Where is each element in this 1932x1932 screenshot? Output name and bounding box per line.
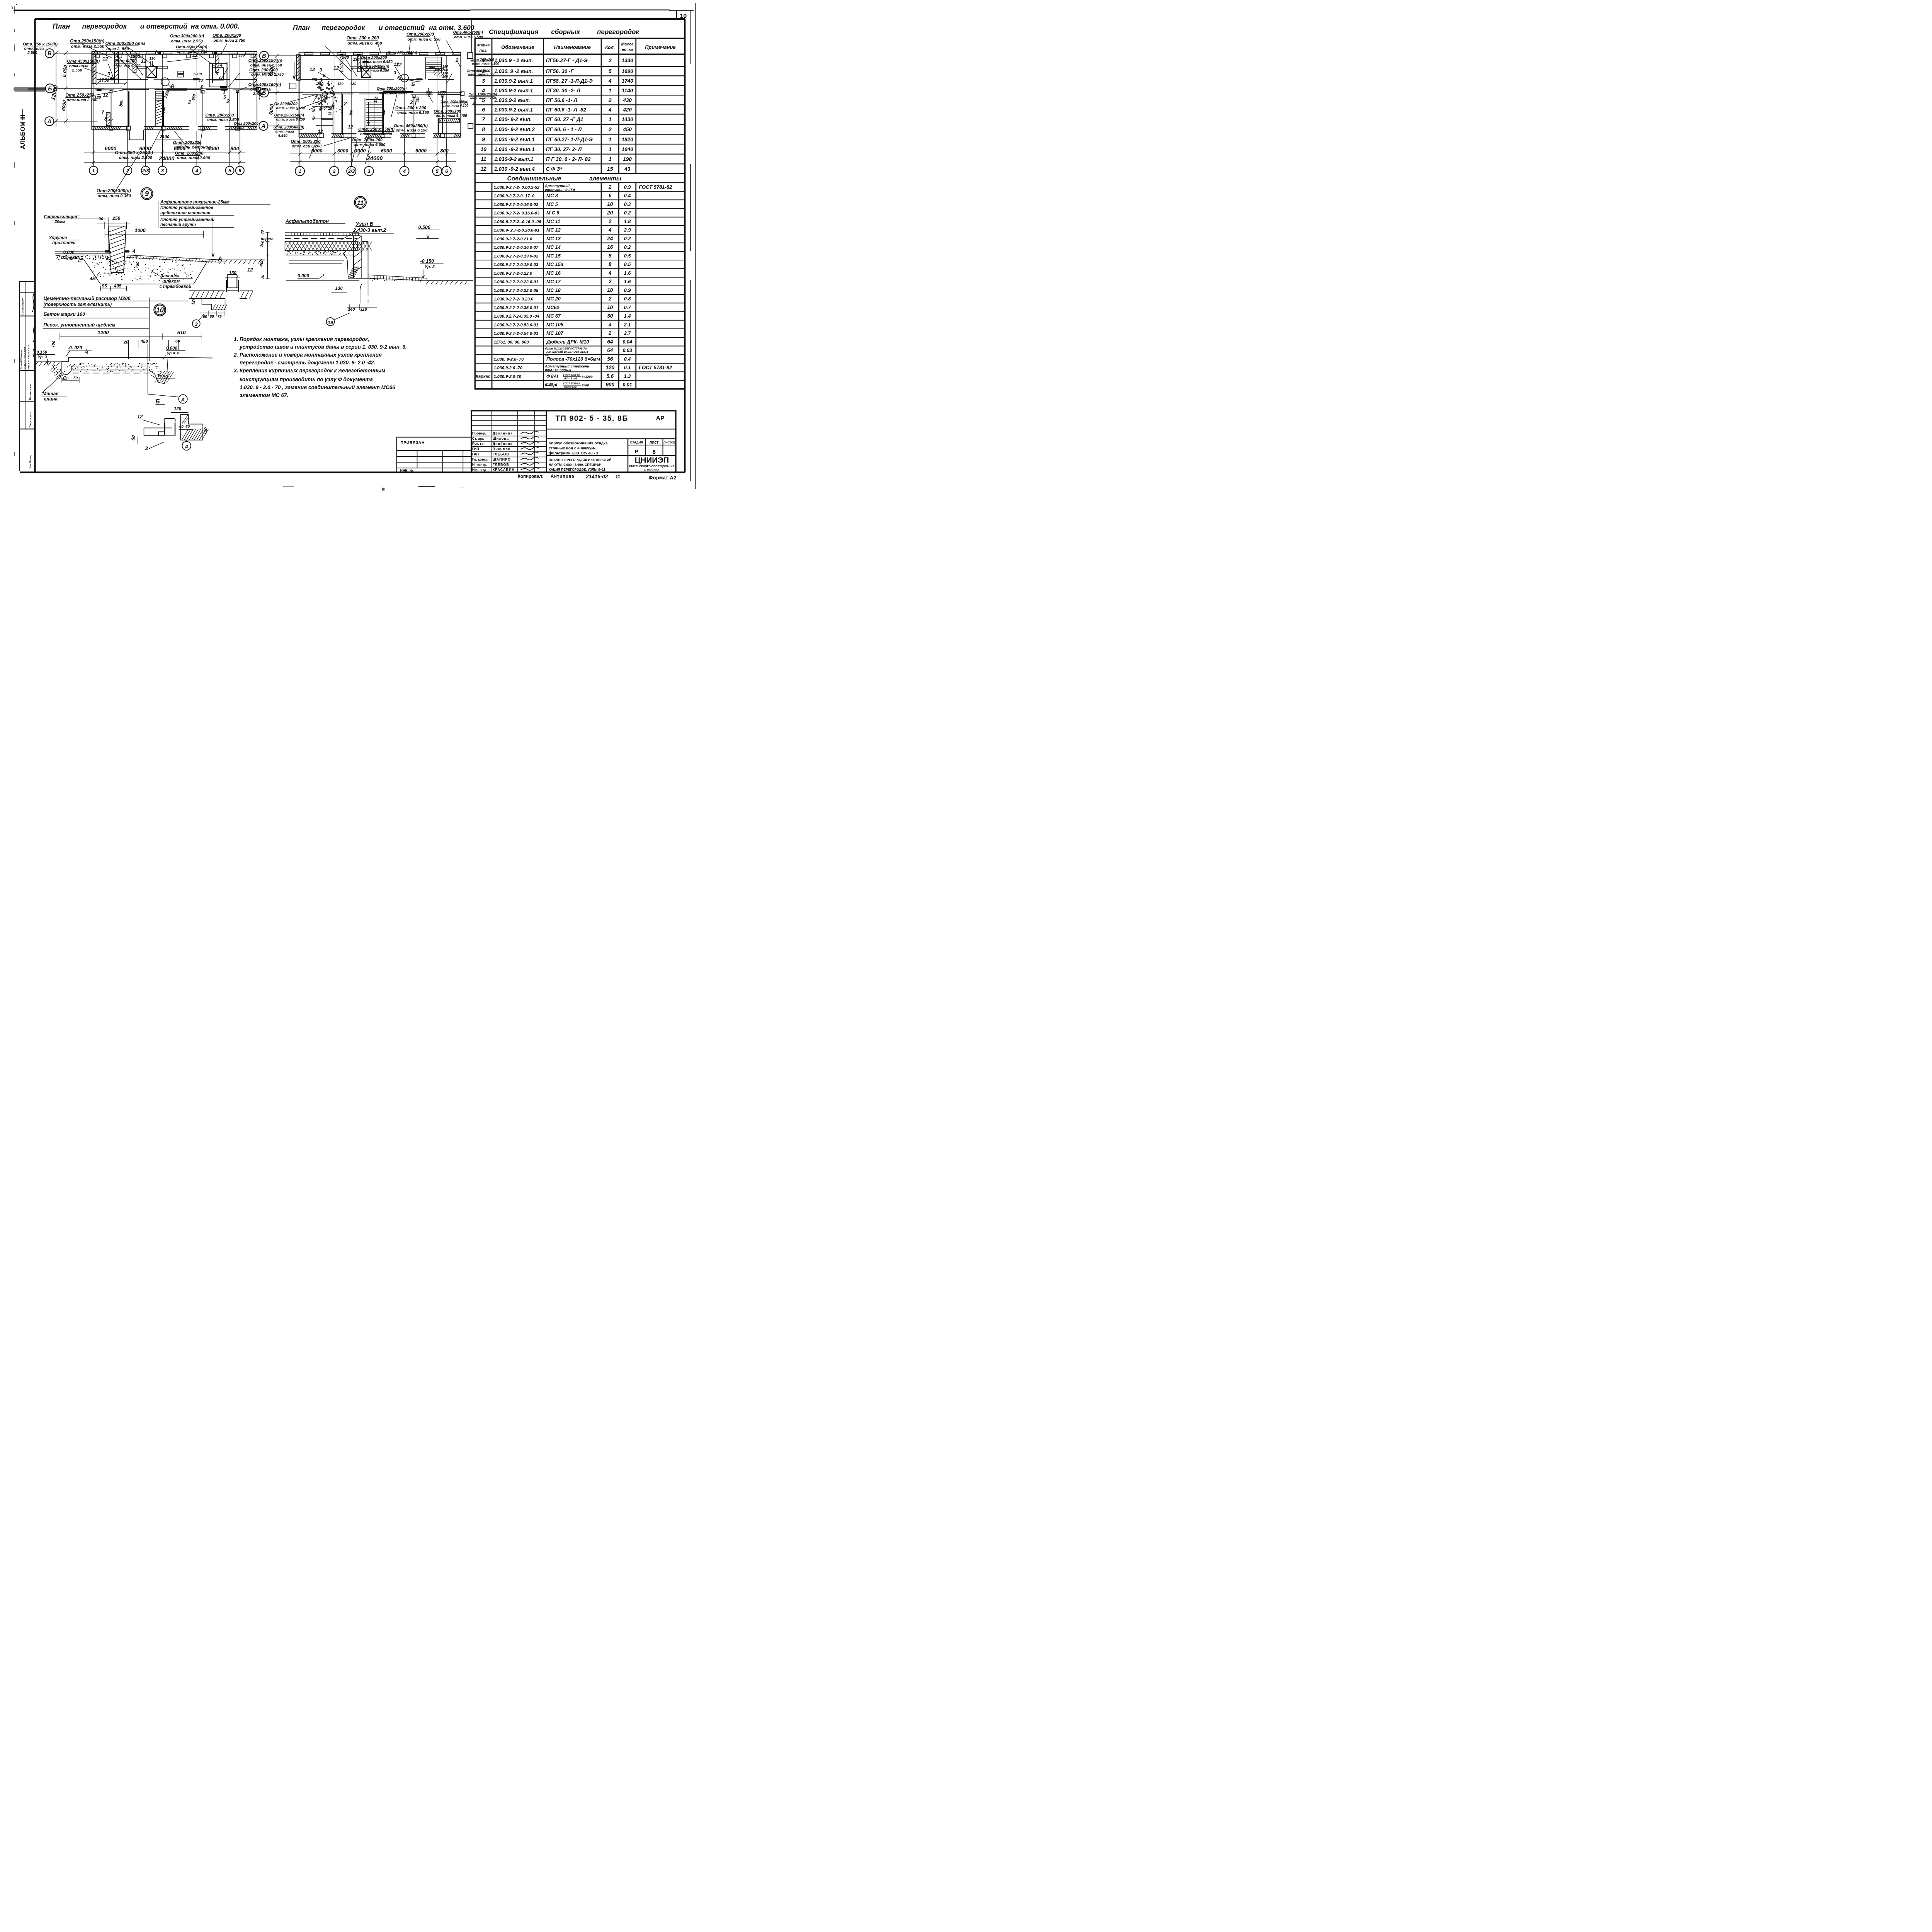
svg-text:и отверстий: и отверстий	[379, 24, 425, 32]
svg-text:45°: 45°	[90, 277, 97, 281]
svg-text:19: 19	[328, 320, 333, 325]
svg-text:6000: 6000	[139, 146, 151, 151]
svg-text:отм. низа 6.250: отм. низа 6.250	[360, 132, 392, 136]
svg-text:30: 30	[99, 217, 104, 221]
svg-text:фильтрами БСХ ОУ- 40 - 3: фильтрами БСХ ОУ- 40 - 3	[549, 451, 599, 456]
svg-text:Провер.: Провер.	[472, 431, 486, 435]
svg-text:ВСт3 сп2: ВСт3 сп2	[564, 386, 577, 389]
svg-text:0.04: 0.04	[622, 339, 632, 345]
svg-text:12: 12	[310, 66, 315, 72]
svg-text:перегородок: перегородок	[597, 28, 639, 36]
svg-text:АР: АР	[656, 415, 665, 422]
svg-text:ТП 902- 5 - 35. 8Б: ТП 902- 5 - 35. 8Б	[556, 414, 628, 423]
svg-text:МС 15а: МС 15а	[546, 262, 563, 267]
svg-text:6: 6	[609, 193, 612, 199]
svg-text:отм. низа: отм. низа	[24, 47, 44, 51]
svg-text:перегородок - смотреть докуме: перегородок - смотреть документ 1.030. 9…	[240, 360, 375, 366]
svg-text:отм. низа 6. 550: отм. низа 6. 550	[408, 37, 440, 42]
svg-text:ГОСТ 5781-82: ГОСТ 5781-82	[563, 383, 580, 385]
svg-text:3: 3	[367, 168, 371, 174]
svg-text:Масса: Масса	[621, 42, 634, 47]
svg-text:ГАП: ГАП	[472, 452, 479, 456]
svg-text:2: 2	[188, 99, 191, 105]
svg-text:1000: 1000	[135, 228, 146, 233]
specification table Спецификация сборных перегородок	[474, 28, 685, 389]
svg-text:ПРИВЯЗАН: ПРИВЯЗАН	[400, 440, 425, 445]
page top edge line and scan artifacts	[12, 4, 694, 456]
svg-text:Каркас: Каркас	[476, 374, 490, 379]
svg-text:8: 8	[609, 253, 612, 259]
svg-text:1.030- 9-2 вып.2: 1.030- 9-2 вып.2	[494, 127, 535, 133]
svg-text:5: 5	[436, 168, 439, 174]
svg-text:ПГ 60.27- 1-Л-Д1-Э: ПГ 60.27- 1-Л-Д1-Э	[546, 136, 593, 142]
svg-text:1: 1	[609, 87, 612, 94]
svg-text:отм. низа 6.550: отм. низа 6.550	[354, 143, 386, 147]
svg-text:530: 530	[342, 55, 349, 60]
svg-text:отм. низа 6.050: отм. низа 6.050	[470, 96, 496, 100]
svg-text:отм. оси 0,450: отм. оси 0,450	[114, 64, 141, 68]
svg-text:1.030. 9-2.0- 70: 1.030. 9-2.0- 70	[494, 357, 524, 362]
svg-text:95: 95	[102, 284, 107, 289]
svg-text:0.03: 0.03	[622, 348, 632, 353]
svg-text:Отв.250х150(h): Отв.250х150(h)	[274, 113, 304, 117]
svg-text:110: 110	[361, 307, 367, 312]
svg-text:2100: 2100	[160, 135, 170, 139]
svg-text:стержень Ф 25А: стержень Ф 25А	[545, 188, 575, 192]
svg-text:2.7: 2.7	[624, 331, 631, 336]
plan 2 opening labels	[274, 31, 499, 149]
svg-text:75: 75	[218, 315, 222, 319]
svg-text:Ур. 3: Ур. 3	[38, 355, 47, 359]
svg-text:Антипова: Антипова	[551, 474, 574, 479]
svg-text:Асфальтобетон: Асфальтобетон	[285, 218, 329, 224]
svg-text:3: 3	[320, 67, 322, 73]
svg-text:2: 2	[608, 218, 612, 224]
svg-text:10: 10	[607, 304, 613, 310]
svg-text:-0.150: -0.150	[420, 259, 434, 264]
svg-text:24000: 24000	[158, 156, 174, 162]
svg-text:1.030.9-2.7-2- 0.16.0-03: 1.030.9-2.7-2- 0.16.0-03	[494, 211, 540, 216]
svg-text:0.9: 0.9	[624, 287, 631, 293]
svg-text:56: 56	[607, 356, 613, 362]
svg-text:МС 18: МС 18	[546, 287, 561, 293]
svg-text:ИНЖЕНЕРНОГО ОБОРУДОВАНИЯ: ИНЖЕНЕРНОГО ОБОРУДОВАНИЯ	[629, 465, 674, 468]
svg-text:1: 1	[609, 146, 612, 152]
svg-text:НА ОТМ. 0,000 ; 3.600. СПЕЦИФИ: НА ОТМ. 0,000 ; 3.600. СПЕЦИФИ-	[549, 463, 603, 467]
svg-text:6000: 6000	[381, 148, 393, 154]
svg-text:ЛИСТОВ: ЛИСТОВ	[663, 441, 675, 444]
svg-text:поз.: поз.	[480, 48, 488, 53]
drawing frame border	[20, 3, 696, 489]
svg-text:1.030.9-2 вып.1: 1.030.9-2 вып.1	[494, 107, 533, 112]
svg-text:1330: 1330	[622, 58, 634, 63]
svg-text:2/3: 2/3	[347, 168, 355, 174]
svg-text:4: 4	[403, 168, 406, 174]
svg-text:6: 6	[111, 75, 114, 81]
svg-text:11: 11	[481, 156, 486, 162]
svg-text:Арматурный: Арматурный	[544, 184, 570, 188]
svg-text:Ур. 3: Ур. 3	[425, 265, 435, 269]
svg-text:1.030.9-2,7-2-0. 17. 0: 1.030.9-2,7-2-0. 17. 0	[494, 194, 535, 199]
svg-text:ПГ58. 27 -1-Л-Д1-Э: ПГ58. 27 -1-Л-Д1-Э	[546, 78, 593, 84]
svg-text:Отв.400х160(п): Отв.400х160(п)	[248, 83, 281, 87]
svg-text:Бетон марки 100: Бетон марки 100	[44, 312, 85, 317]
svg-text:1.030 -9-2 вып.1: 1.030 -9-2 вып.1	[494, 136, 534, 142]
svg-text:дж.: дж.	[119, 100, 124, 107]
svg-text:элементом МС 67.: элементом МС 67.	[240, 393, 288, 398]
svg-text:1: 1	[609, 156, 612, 162]
svg-text:ед.,кг: ед.,кг	[622, 47, 633, 52]
svg-text:6000: 6000	[415, 148, 427, 154]
svg-text:24000: 24000	[367, 156, 383, 162]
svg-text:дж: дж	[381, 109, 386, 115]
svg-text:Ст. арх: Ст. арх	[472, 437, 484, 440]
svg-text:Р: Р	[635, 449, 638, 454]
svg-text:5: 5	[228, 168, 231, 173]
svg-text:1.030.9-2.7-2-0.22.0-01: 1.030.9-2.7-2-0.22.0-01	[494, 280, 539, 284]
svg-text:12: 12	[192, 53, 198, 58]
svg-text:= 20мм: = 20мм	[51, 219, 65, 224]
svg-text:МС 15: МС 15	[546, 253, 561, 259]
svg-text:800: 800	[426, 90, 433, 95]
svg-text:на отм. 3.600: на отм. 3.600	[429, 24, 474, 32]
svg-text:2: 2	[332, 168, 336, 174]
svg-text:Обозначение: Обозначение	[501, 44, 534, 50]
svg-text:МС 11: МС 11	[546, 219, 560, 224]
svg-text:ГОСТ 5781-82: ГОСТ 5781-82	[563, 374, 580, 376]
svg-text:6: 6	[482, 106, 485, 112]
svg-text:50: 50	[73, 376, 78, 380]
svg-text:Отв. 200 х 200: Отв. 200 х 200	[347, 36, 379, 41]
svg-text:8: 8	[104, 116, 107, 122]
svg-text:2.550: 2.550	[27, 51, 37, 55]
svg-text:Отв.1100х700(h): Отв.1100х700(h)	[469, 93, 497, 97]
svg-text:сборных: сборных	[551, 28, 581, 36]
svg-text:1.6: 1.6	[624, 270, 631, 276]
svg-text:Гл. конст.: Гл. конст.	[472, 457, 488, 461]
junction detail Б with node 4	[131, 398, 209, 451]
svg-text:2. Расположение и номера м: 2. Расположение и номера монтажных узлов…	[233, 352, 382, 358]
svg-text:1820: 1820	[622, 136, 634, 142]
svg-text:ℓ=3200: ℓ=3200	[582, 375, 593, 379]
svg-text:отм. низа 2.500: отм. низа 2.500	[207, 117, 239, 122]
svg-text:1740: 1740	[622, 78, 634, 84]
svg-text:Отв. 450х250(h): Отв. 450х250(h)	[394, 124, 428, 128]
svg-text:2: 2	[608, 126, 612, 133]
svg-text:3000: 3000	[337, 148, 349, 154]
svg-text:ур.ч. п.: ур.ч. п.	[167, 351, 181, 355]
svg-text:60: 60	[179, 425, 184, 429]
svg-text:перегородок: перегородок	[322, 24, 366, 32]
svg-text:12: 12	[318, 129, 323, 134]
svg-text:2/3: 2/3	[142, 168, 149, 173]
svg-text:6: 6	[238, 168, 241, 173]
svg-text:МС 12: МС 12	[546, 228, 561, 233]
svg-text:6000: 6000	[311, 148, 323, 154]
svg-text:7: 7	[101, 109, 104, 115]
svg-text:24: 24	[607, 236, 613, 241]
svg-text:Отв. 200х400(п): Отв. 200х400(п)	[274, 126, 305, 130]
svg-text:отм. оси 6.200: отм. оси 6.200	[292, 144, 321, 149]
svg-text:В: В	[262, 53, 266, 59]
svg-text:3: 3	[145, 445, 148, 451]
svg-text:1.6: 1.6	[624, 279, 631, 284]
svg-text:1040: 1040	[622, 146, 634, 152]
svg-text:отм. низа 2.900: отм. низа 2.900	[177, 156, 211, 160]
svg-text:Плотно утрамбованное: Плотно утрамбованное	[160, 206, 213, 210]
svg-text:Спецификация: Спецификация	[489, 28, 539, 36]
svg-text:Отв. 200х200: Отв. 200х200	[175, 151, 204, 156]
svg-text:1.8: 1.8	[624, 219, 631, 224]
svg-text:глина: глина	[44, 396, 58, 401]
svg-text:4: 4	[608, 270, 612, 276]
svg-text:2.750: 2.750	[253, 92, 263, 96]
svg-text:ПЛАНЫ ПЕРЕГОРОДОК И ОТВЕРСТИЙ: ПЛАНЫ ПЕРЕГОРОДОК И ОТВЕРСТИЙ	[549, 457, 612, 462]
svg-text:Отв. 200х200: Отв. 200х200	[205, 113, 234, 117]
svg-text:2.430-3 вып.2: 2.430-3 вып.2	[353, 227, 386, 233]
svg-text:Отдел ГС Гричева: Отдел ГС Гричева	[20, 350, 23, 369]
svg-text:Отв.200х200 отм: Отв.200х200 отм	[105, 41, 145, 46]
svg-text:МС 16: МС 16	[546, 270, 561, 276]
svg-text:сточных вод с 4 вакуум-: сточных вод с 4 вакуум-	[549, 446, 595, 451]
svg-text:ГОСТ 5781-82: ГОСТ 5781-82	[639, 184, 672, 190]
svg-text:2: 2	[608, 330, 612, 336]
svg-text:Формат А2: Формат А2	[649, 475, 677, 481]
svg-text:ПГ 56.6 -1- Л: ПГ 56.6 -1- Л	[546, 97, 578, 103]
svg-text:0.500: 0.500	[418, 225, 430, 230]
svg-text:отм. низа 0.350: отм. низа 0.350	[98, 194, 131, 199]
svg-text:отм.низа 6.250: отм.низа 6.250	[361, 69, 389, 73]
svg-text:12: 12	[348, 124, 353, 130]
svg-text:0.9: 0.9	[624, 184, 631, 190]
svg-text:МС 105: МС 105	[546, 322, 564, 327]
svg-text:Отв. 200х 200: Отв. 200х 200	[291, 139, 321, 144]
svg-text:ГИП: ГИП	[472, 447, 479, 451]
svg-text:Инв.№под.: Инв.№под.	[29, 455, 32, 469]
svg-text:отм. низа 2.550: отм. низа 2.550	[250, 63, 282, 68]
svg-text:11: 11	[328, 111, 332, 116]
svg-text:П Г 30. 6 - 2- Л- 82: П Г 30. 6 - 2- Л- 82	[546, 156, 591, 162]
svg-text:12: 12	[137, 414, 143, 420]
svg-text:Мятая: Мятая	[43, 391, 58, 396]
svg-text:3: 3	[394, 71, 396, 75]
svg-text:отм. низа 2.550: отм. низа 2.550	[171, 39, 203, 43]
svg-text:2.1: 2.1	[624, 322, 631, 327]
svg-text:Письман: Письман	[493, 447, 511, 451]
svg-text:Отв.450х150(h): Отв.450х150(h)	[67, 59, 100, 64]
svg-text:Нач. отд: Нач. отд	[472, 468, 486, 472]
svg-text:1.030- 9-2 вып.: 1.030- 9-2 вып.	[494, 117, 532, 122]
svg-text:900: 900	[605, 382, 614, 388]
svg-text:М С 6: М С 6	[546, 210, 560, 216]
svg-text:ГЛЕБОВ: ГЛЕБОВ	[493, 452, 509, 456]
svg-text:Ф 8АI: Ф 8АI	[546, 374, 558, 379]
svg-text:с трамбовкой: с трамбовкой	[160, 284, 192, 289]
svg-text:отм. низа 6.550: отм. низа 6.550	[276, 106, 305, 111]
floor slab section with node А	[35, 330, 213, 403]
svg-text:отм. низа 6.200: отм. низа 6.200	[468, 73, 495, 77]
svg-text:отм.: отм.	[236, 126, 245, 131]
floor plan at elevation 3.600	[259, 19, 474, 176]
svg-text:1.030.9-2 вып.: 1.030.9-2 вып.	[494, 97, 530, 103]
svg-text:8: 8	[312, 116, 315, 121]
svg-text:510: 510	[177, 330, 186, 335]
svg-text:0.2: 0.2	[624, 245, 631, 250]
svg-text:Б: Б	[262, 90, 266, 96]
floor layers legend node 10	[43, 296, 189, 361]
svg-text:МС 20: МС 20	[546, 296, 561, 302]
svg-text:и отверстий: и отверстий	[140, 22, 187, 30]
svg-text:Полоса -70х120 δ=6мм: Полоса -70х120 δ=6мм	[546, 356, 600, 362]
svg-text:ПГ30. 30 -2- Л: ПГ30. 30 -2- Л	[546, 88, 581, 94]
svg-text:Отв. 200 х 200: Отв. 200 х 200	[352, 138, 383, 143]
svg-text:Отв 200х200: Отв 200х200	[361, 56, 387, 60]
svg-text:План: План	[53, 22, 70, 30]
svg-text:Отв.200х200: Отв.200х200	[406, 32, 434, 37]
svg-text:1.030.9- 2.7-2-0.20.0-01: 1.030.9- 2.7-2-0.20.0-01	[494, 228, 540, 233]
svg-text:0.4: 0.4	[624, 193, 631, 199]
svg-text:10: 10	[328, 107, 332, 111]
svg-text:4: 4	[608, 321, 612, 327]
svg-text:430: 430	[622, 97, 632, 103]
svg-text:64: 64	[607, 347, 613, 353]
svg-text:1: 1	[223, 89, 226, 95]
svg-text:1.030.9-2.7-2-0.53.0-01: 1.030.9-2.7-2-0.53.0-01	[494, 323, 539, 327]
svg-text:Отв.300х200 (п): Отв.300х200 (п)	[170, 34, 204, 38]
svg-text:640: 640	[320, 107, 326, 111]
svg-text:3. Крепление кирпичных пер: 3. Крепление кирпичных перегородок к жел…	[234, 368, 385, 374]
svg-text:устройство швов и плинтус: устройство швов и плинтусов даны в серии…	[239, 344, 407, 350]
svg-text:130: 130	[149, 57, 156, 61]
svg-text:640: 640	[321, 93, 328, 97]
svg-text:отм. низа 6. 400: отм. низа 6. 400	[436, 114, 468, 118]
svg-text:г. МОСКВА: г. МОСКВА	[644, 468, 660, 472]
svg-text:Отв.250х150(п): Отв.250х150(п)	[176, 45, 207, 49]
svg-text:Б: Б	[412, 81, 415, 87]
svg-text:10: 10	[156, 306, 164, 314]
svg-text:Ог 8200х200: Ог 8200х200	[274, 102, 298, 106]
svg-text:А: А	[218, 256, 223, 262]
svg-text:130: 130	[337, 82, 344, 86]
svg-text:1200: 1200	[193, 72, 202, 77]
svg-text:200: 200	[442, 75, 448, 78]
svg-text:1.030.9-2.7-2-0.16.0-07: 1.030.9-2.7-2-0.16.0-07	[494, 245, 539, 250]
svg-text:10: 10	[480, 146, 486, 152]
svg-text:11761. 00. 00. 000: 11761. 00. 00. 000	[494, 340, 529, 345]
svg-text:Отв. 200х200: Отв. 200х200	[213, 33, 241, 38]
svg-text:отм. низа 6.100: отм. низа 6.100	[442, 104, 468, 107]
svg-text:Отв 250х150(п): Отв 250х150(п)	[359, 65, 389, 69]
svg-text:Отв.Ф200: Отв.Ф200	[114, 59, 137, 63]
svg-text:800: 800	[440, 148, 449, 154]
svg-text:2.9: 2.9	[624, 228, 631, 233]
svg-text:2: 2	[344, 101, 347, 107]
svg-text:отм. низа 6.450: отм. низа 6.450	[362, 60, 393, 64]
svg-text:А: А	[170, 82, 174, 88]
svg-text:1.030.9-2.7-2-0.22.0-05: 1.030.9-2.7-2-0.22.0-05	[494, 288, 539, 293]
svg-text:11: 11	[616, 474, 621, 480]
svg-text:ВСт 3 сп2: ВСт 3 сп2	[564, 377, 577, 380]
svg-text:шлаком: шлаком	[162, 279, 180, 284]
svg-text:0.01: 0.01	[622, 382, 632, 388]
svg-text:отм.низа 2.700: отм.низа 2.700	[67, 98, 98, 102]
svg-text:Отв. 250 х 150(п): Отв. 250 х 150(п)	[358, 127, 395, 132]
svg-text:190: 190	[623, 156, 632, 162]
svg-text:1.030.9-2,7-2- 0.00.2-52: 1.030.9-2,7-2- 0.00.2-52	[494, 185, 540, 190]
svg-text:1.030.9-2.7-2-0.16.0-02: 1.030.9-2.7-2-0.16.0-02	[494, 202, 539, 207]
svg-text:Отв 250х150(п): Отв 250х150(п)	[388, 51, 418, 55]
svg-text:1.030.9-2.0-70: 1.030.9-2.0-70	[494, 374, 522, 379]
svg-text:отм. низа 6.250: отм. низа 6.250	[276, 117, 305, 122]
svg-text:1.030 -9-2 вып.1: 1.030 -9-2 вып.1	[494, 146, 534, 152]
svg-text:1.030.9-2.7-2-0.19.0-02: 1.030.9-2.7-2-0.19.0-02	[494, 254, 539, 259]
svg-text:МС 107: МС 107	[546, 331, 564, 336]
svg-text:1.030.9-2.7-2-0.54.0-01: 1.030.9-2.7-2-0.54.0-01	[494, 332, 539, 336]
svg-text:8: 8	[609, 262, 612, 267]
svg-text:Отв.400х250(h): Отв.400х250(h)	[453, 31, 483, 35]
svg-text:2: 2	[410, 99, 413, 105]
svg-text:6: 6	[219, 76, 222, 81]
svg-text:Отв. 200х200: Отв. 200х200	[434, 109, 461, 114]
svg-text:2750: 2750	[99, 77, 109, 83]
svg-text:0.4: 0.4	[624, 356, 631, 362]
svg-text:6: 6	[323, 73, 326, 78]
title block stamp ТП 902-5-35.8Б	[283, 411, 677, 491]
svg-text:отм.низа: отм.низа	[69, 64, 88, 68]
svg-text:15: 15	[607, 166, 613, 172]
svg-text:отм. низа 2.600: отм. низа 2.600	[119, 155, 153, 160]
sheet number box 10	[669, 11, 690, 19]
svg-text:отм. низа 2.750: отм. низа 2.750	[214, 38, 246, 43]
svg-text:ЛИСТ: ЛИСТ	[650, 440, 659, 444]
svg-text:отм. низа 6.150: отм. низа 6.150	[397, 111, 429, 115]
svg-text:Наименование: Наименование	[554, 44, 591, 50]
svg-text:дж: дж	[349, 109, 354, 115]
svg-text:1690: 1690	[622, 68, 634, 74]
svg-text:10: 10	[680, 13, 687, 19]
svg-text:Кол.: Кол.	[605, 44, 615, 50]
svg-text:прокладки: прокладки	[52, 241, 76, 245]
svg-text:1.030.9-2 вып.1: 1.030.9-2 вып.1	[494, 78, 533, 84]
svg-text:1: 1	[92, 168, 95, 173]
svg-text:130: 130	[350, 82, 357, 86]
svg-text:800: 800	[230, 146, 239, 151]
svg-text:1.030.9-2.7-2-0.35.0-01: 1.030.9-2.7-2-0.35.0-01	[494, 306, 539, 310]
svg-text:60: 60	[203, 315, 207, 319]
svg-text:ОтдЕА ЭАЬ ШЕРСТЯКОВ: ОтдЕА ЭАЬ ШЕРСТЯКОВ	[28, 344, 30, 369]
svg-text:3: 3	[195, 321, 198, 327]
svg-text:60: 60	[210, 315, 214, 319]
svg-text:Отв.400х300: Отв.400х300	[467, 69, 491, 73]
svg-text:ОТДЕЛ КГ КОБАЗЕВА: ОТДЕЛ КГ КОБАЗЕВА	[24, 347, 27, 369]
svg-text:1.030.9-2 вып.1: 1.030.9-2 вып.1	[494, 88, 533, 94]
svg-text:перегородок: перегородок	[82, 22, 127, 30]
svg-text:6: 6	[397, 76, 400, 81]
svg-text:Узел Б: Узел Б	[355, 221, 373, 227]
svg-text:130: 130	[239, 53, 245, 58]
svg-text:Отв.200х300(п): Отв.200х300(п)	[97, 189, 131, 194]
svg-text:0.8: 0.8	[624, 296, 631, 302]
svg-text:1140: 1140	[622, 88, 633, 94]
svg-text:отм. низа 6.100: отм. низа 6.100	[472, 62, 499, 66]
svg-text:3: 3	[161, 168, 164, 173]
svg-text:2: 2	[608, 279, 612, 284]
svg-text:130: 130	[353, 58, 360, 62]
svg-text:1: 1	[609, 136, 612, 142]
svg-text:1.3: 1.3	[624, 374, 631, 379]
svg-text:1. Порядок монтажа, узлы к: 1. Порядок монтажа, узлы крепления перег…	[234, 337, 369, 342]
svg-text:6000: 6000	[105, 146, 117, 151]
